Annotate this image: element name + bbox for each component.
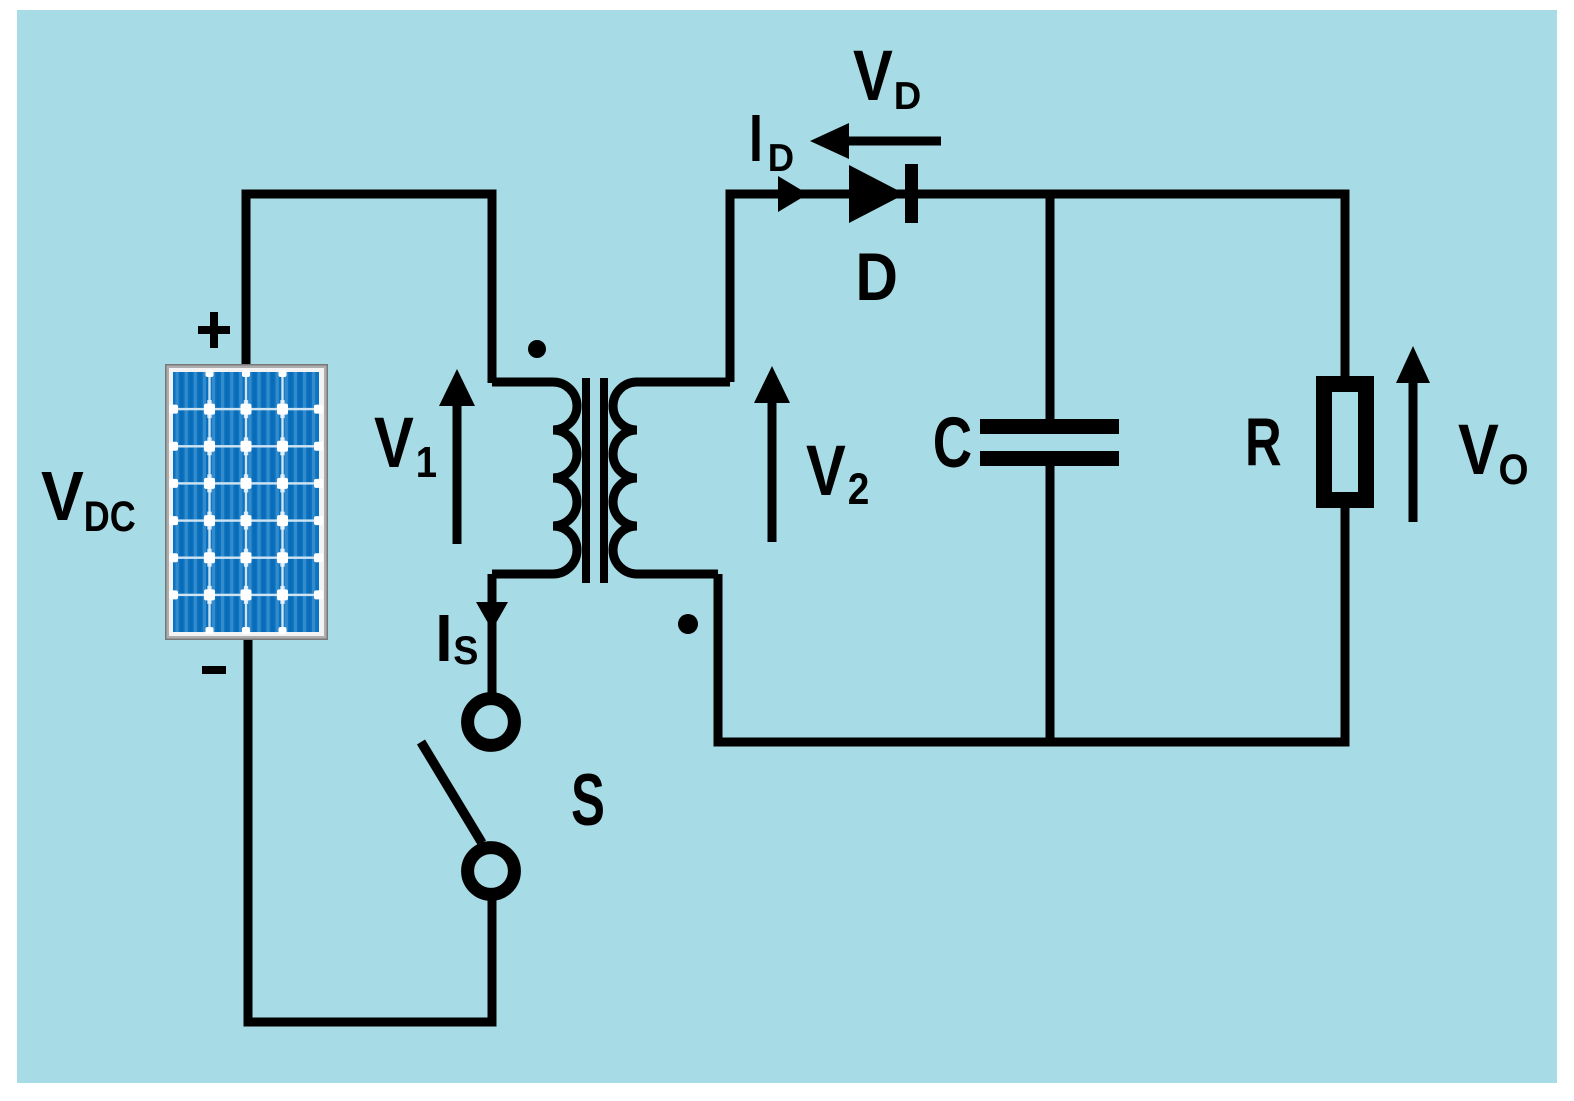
arrow VD — [810, 123, 941, 159]
current arrow ID — [778, 176, 808, 212]
wire: left loop top (panel plus to primary top) — [246, 194, 492, 383]
svg-text:C: C — [933, 403, 972, 483]
svg-text:D: D — [768, 137, 794, 180]
diode D — [849, 164, 918, 223]
arrow V2 — [754, 366, 790, 542]
svg-text:S: S — [453, 629, 478, 673]
wire: capacitor branch top — [1046, 194, 1055, 419]
label IS — [435, 600, 478, 676]
capacitor C — [980, 419, 1119, 466]
label VO — [1458, 411, 1529, 494]
transformer T1 secondary winding — [613, 382, 730, 574]
switch S — [421, 699, 514, 895]
svg-text:2: 2 — [848, 464, 870, 514]
wire: switch bottom to bottom-left rail to panel minus — [248, 640, 492, 1022]
wire: primary bottom to IS arrow segment — [488, 574, 497, 694]
label VD — [853, 36, 921, 118]
polarity dot primary — [528, 340, 546, 358]
transformer T1 primary winding — [492, 382, 577, 574]
svg-text:I: I — [435, 600, 452, 676]
plus terminal — [198, 312, 230, 348]
wire: capacitor branch bottom — [1046, 466, 1055, 742]
current arrow IS — [476, 602, 508, 630]
resistor R — [1324, 384, 1366, 500]
svg-text:DC: DC — [84, 493, 136, 541]
polarity dot secondary — [678, 614, 698, 634]
label ID — [749, 100, 794, 181]
svg-text:V: V — [374, 403, 414, 482]
svg-text:O: O — [1499, 445, 1529, 493]
solar panel source VDC — [165, 364, 328, 640]
arrow VO — [1396, 346, 1430, 522]
label V2 — [806, 431, 869, 513]
svg-text:S: S — [571, 760, 605, 841]
label V1 — [374, 403, 437, 486]
svg-text:V: V — [1458, 411, 1499, 490]
minus terminal — [202, 666, 226, 674]
transformer core — [582, 378, 608, 583]
svg-text:D: D — [856, 239, 898, 315]
svg-text:R: R — [1245, 404, 1282, 480]
arrow V1 — [439, 369, 475, 544]
svg-text:I: I — [749, 100, 763, 176]
wire: resistor bottom to bottom-right rail to secondary bottom — [718, 508, 1345, 742]
svg-text:1: 1 — [416, 438, 437, 487]
label VDC — [41, 458, 136, 541]
svg-text:V: V — [806, 431, 846, 510]
wire: secondary top to diode rail, to resistor top — [730, 194, 1345, 382]
svg-text:D: D — [894, 75, 922, 119]
svg-text:V: V — [41, 458, 84, 536]
svg-text:V: V — [853, 36, 893, 115]
